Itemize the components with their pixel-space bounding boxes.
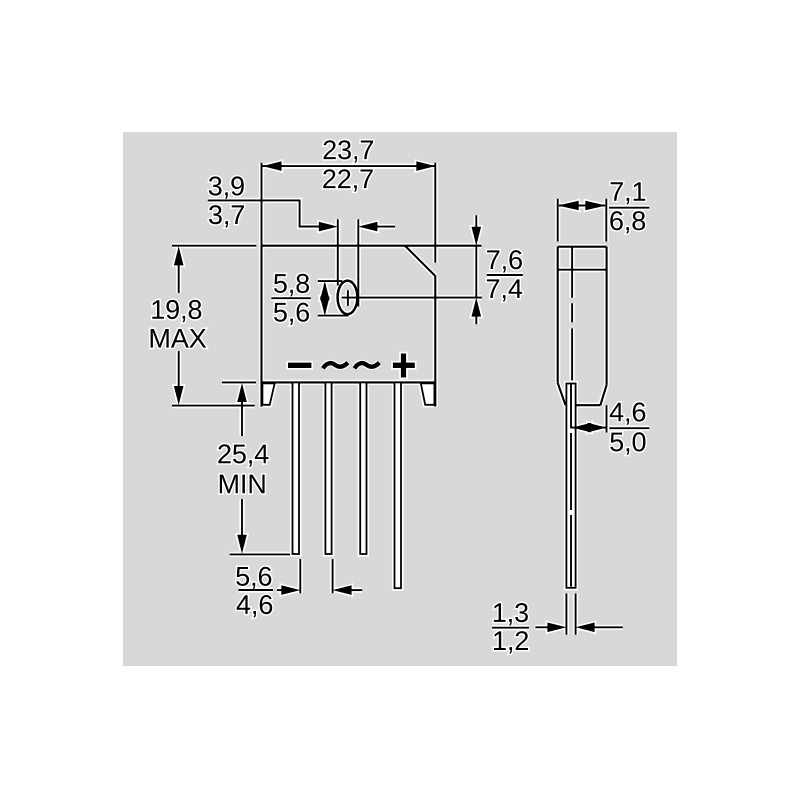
- dim 19,8 reference line bottom: [172, 405, 255, 407]
- label 3,9: [209, 176, 244, 198]
- pin 4: [395, 382, 402, 588]
- pin 3: [360, 382, 366, 554]
- label 4,6 pitch: [237, 595, 273, 617]
- terminal mark minus: [288, 363, 311, 368]
- label 6,8: [610, 211, 645, 233]
- dim 5,8/5,6 double arrow: [320, 281, 330, 300]
- dim 5,8/5,6 tick top: [318, 280, 343, 282]
- body right foot: [421, 383, 435, 405]
- terminal mark plus: [393, 363, 415, 368]
- centre line (dash-dot): [571, 270, 573, 298]
- label 7,4: [487, 279, 522, 301]
- dim 23,7/22,7 extension line right: [434, 163, 436, 263]
- dim 5,8/5,6 tick bottom: [318, 315, 349, 317]
- label 1,3: [492, 627, 529, 629]
- hole extension line right: [357, 219, 359, 306]
- label 5,6 pitch: [239, 589, 274, 591]
- dim 25,4 reference tick top: [222, 381, 256, 383]
- hole centre mark vertical: [347, 290, 349, 306]
- dim 7,1/6,8 line+arrows: [559, 205, 605, 207]
- label 19,8: [152, 300, 201, 322]
- pin 2: [325, 382, 331, 554]
- dim 5,6/4,6 arrow right: [333, 585, 352, 595]
- label 22,7: [323, 169, 373, 191]
- label 7,6: [487, 274, 523, 276]
- hole extension line left: [337, 219, 339, 285]
- dim 3,9/3,7 arrow left: [319, 222, 338, 232]
- dim 1,3/1,2 arrow left: [536, 626, 550, 628]
- hole centre mark horizontal (extends to 7,6 reference): [342, 297, 482, 299]
- centre line through pin: [570, 384, 572, 428]
- bridge body outline (front view): [262, 245, 482, 247]
- dim 4,6/5,0 extension: [606, 405, 608, 432]
- label 5,8: [271, 297, 310, 299]
- label 23,7: [324, 140, 374, 162]
- dim 23,7/22,7 arrow left: [263, 161, 282, 171]
- dim 3,9/3,7 arrow right: [358, 222, 377, 232]
- dim 5,6/4,6 extension left: [299, 559, 301, 593]
- dim 7,6/7,4 connector: [475, 246, 477, 298]
- label MAX: [151, 329, 207, 348]
- dim 19,8 arrow up: [174, 246, 184, 265]
- body left foot: [262, 383, 274, 405]
- dim 23,7/22,7 extension line left: [261, 163, 263, 246]
- terminal mark AC tilde 1: [323, 363, 348, 369]
- dim 7,6/7,4 arrow down: [472, 227, 482, 246]
- dim 3,9/3,7 leader: [208, 200, 318, 226]
- drawing background panel: [123, 132, 677, 666]
- dim 7,1/6,8 extension left: [557, 199, 559, 242]
- mounting hole (oval): [338, 281, 358, 315]
- dim 7,1/6,8 extension right: [605, 199, 607, 242]
- label 3,7: [209, 205, 244, 227]
- dim 5,6/4,6 extension right: [332, 559, 334, 593]
- label MIN: [220, 475, 265, 494]
- side view body outline: [558, 246, 607, 248]
- dim 25,4 reference line bottom: [230, 553, 290, 555]
- label 25,4: [218, 444, 268, 466]
- dim 7,6/7,4 arrow up: [472, 298, 482, 317]
- dim 23,7/22,7 arrow right: [416, 161, 435, 171]
- label 7,1: [609, 207, 649, 209]
- label 5,0: [610, 432, 645, 454]
- side view pin: [566, 384, 575, 588]
- dim 4,6/5,0 double arrow: [571, 427, 607, 429]
- label 1,2: [494, 631, 528, 653]
- pin 1: [293, 382, 300, 554]
- label 4,6 side: [610, 427, 650, 429]
- dim 23,7/22,7 line: [263, 165, 436, 167]
- dim 25,4 arrow up: [237, 383, 247, 402]
- pin tip extension left: [565, 594, 567, 635]
- label 5,6 hole: [274, 303, 309, 325]
- dim 1,3/1,2 arrow right: [576, 623, 595, 633]
- pin tip extension right: [575, 594, 577, 635]
- dim 19,8 reference line top: [172, 245, 256, 247]
- dim 19,8 arrow down: [174, 386, 184, 405]
- terminal mark AC tilde 2: [355, 363, 380, 369]
- dim 25,4 arrow down: [237, 535, 247, 554]
- dim 5,6/4,6 arrow left: [277, 589, 283, 591]
